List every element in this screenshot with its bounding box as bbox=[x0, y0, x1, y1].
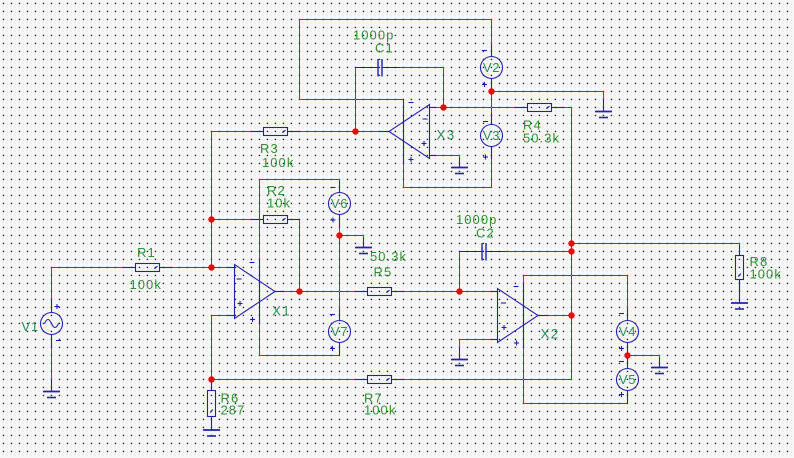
svg-text:V5: V5 bbox=[619, 372, 636, 387]
voltage source V1 (sine) bbox=[41, 300, 63, 348]
voltage source V7 bbox=[329, 309, 351, 355]
wire X2 minus node up to C2 left bbox=[459, 252, 461, 292]
resistor R8 (vertical) bbox=[736, 245, 744, 292]
wire V7 bottom loop to X1 power bottom bbox=[260, 324, 340, 356]
resistor R4 bbox=[516, 104, 564, 112]
voltage source V2 bbox=[481, 45, 503, 91]
ground at X3 plus input bbox=[451, 158, 468, 174]
wire C1 right lead to X3 minus node bbox=[399, 67, 444, 69]
node top rail junction bbox=[568, 240, 574, 246]
wire top right rail to R8 top bbox=[572, 244, 740, 256]
resistor R5 bbox=[356, 288, 404, 296]
ground at X2 plus input bbox=[451, 348, 468, 366]
wire X2 plus down to ground bbox=[459, 340, 461, 349]
ground below V1 bbox=[43, 380, 60, 398]
node X3 output junction bbox=[352, 128, 358, 134]
wire V2/V3 midpoint tap to ground bbox=[492, 92, 604, 101]
node C2 right junction bbox=[568, 248, 574, 254]
svg-text:100k: 100k bbox=[130, 277, 162, 292]
svg-text:V7: V7 bbox=[331, 324, 348, 339]
svg-text:V2: V2 bbox=[483, 60, 500, 75]
svg-text:100k: 100k bbox=[364, 403, 396, 418]
svg-text:10k: 10k bbox=[267, 196, 291, 211]
wire X2 power bottom loop to V5 bottom bbox=[524, 348, 628, 404]
wire V6 junction tap to ground bbox=[340, 236, 364, 239]
svg-text:C2: C2 bbox=[476, 226, 495, 241]
svg-text:50.3k: 50.3k bbox=[370, 249, 407, 264]
svg-text:X3: X3 bbox=[437, 128, 456, 143]
svg-text:V4: V4 bbox=[619, 324, 636, 339]
wire V1 top to R1 left bbox=[52, 268, 124, 300]
wire V6 supply rail: X1 power top to V6 top bbox=[260, 180, 340, 260]
voltage source V3 bbox=[481, 113, 503, 160]
wire R3 right pin to X3 output node bbox=[300, 131, 383, 133]
op-amp X3 (mirrored, output to left) bbox=[380, 100, 436, 164]
wire X3 plus input to ground bbox=[436, 156, 460, 159]
svg-text:X2: X2 bbox=[541, 327, 560, 342]
node X3 minus input junction bbox=[440, 104, 446, 110]
svg-text:R1: R1 bbox=[137, 245, 156, 260]
node X1 output junction bbox=[296, 288, 302, 294]
wire X2 plus input row bbox=[460, 339, 494, 341]
node V6/V7 junction bbox=[336, 232, 342, 238]
svg-text:287: 287 bbox=[221, 403, 246, 418]
wire C1 left column to X3 output node bbox=[355, 68, 357, 132]
wire R6/R7 node to R7 left bbox=[212, 379, 356, 381]
node V4/V5 junction bbox=[624, 352, 630, 358]
wire X3 power top loop to V2 top bbox=[300, 20, 492, 100]
wire R3 row corner to R3 left pin bbox=[212, 131, 252, 133]
svg-text:X1: X1 bbox=[272, 304, 291, 319]
svg-text:V3: V3 bbox=[483, 128, 500, 143]
wire X3 minus input row to R4 left bbox=[436, 107, 516, 109]
resistor R6 (vertical) bbox=[208, 380, 216, 431]
op-amp X2 bbox=[491, 284, 547, 348]
wire V2 bottom to V3 top bbox=[491, 79, 493, 125]
wire V6 junction down to V7 top bbox=[339, 236, 341, 321]
ground at V2/V3 midpoint bbox=[595, 100, 612, 118]
wire R7 right to X2 output column bbox=[404, 379, 572, 381]
resistor R7 bbox=[356, 376, 404, 384]
wire R5 right to X2 minus node bbox=[404, 291, 494, 293]
resistor R1 bbox=[124, 264, 172, 272]
node X2 output junction bbox=[568, 312, 574, 318]
wire R4 right to column corner bbox=[564, 107, 572, 109]
wire C2 right lead to X2 output column bbox=[505, 251, 572, 253]
ground below R8 bbox=[731, 280, 748, 310]
capacitor C1 bbox=[356, 59, 401, 77]
wire X2 power top to V4 top bbox=[524, 276, 628, 321]
svg-text:R3: R3 bbox=[260, 141, 279, 156]
svg-text:V1: V1 bbox=[22, 319, 39, 334]
wire R2 right down to X1 output node bbox=[299, 220, 301, 292]
node X2 minus input junction bbox=[456, 288, 462, 294]
wire R1 right to X1 minus input (node A) bbox=[172, 267, 231, 269]
wire V6 bottom to junction bbox=[339, 215, 341, 236]
voltage source V4 bbox=[617, 309, 639, 355]
node X1 minus input junction bbox=[208, 264, 214, 270]
wire X1 plus input stub bbox=[212, 315, 231, 317]
capacitor C2 bbox=[460, 243, 507, 261]
wire X2 output column vertical (R4 to R7 row) bbox=[571, 108, 573, 380]
node V2/V3 junction bbox=[488, 88, 494, 94]
svg-text:100k: 100k bbox=[262, 155, 294, 170]
voltage source V6 bbox=[329, 181, 351, 227]
resistor R2 bbox=[252, 216, 300, 224]
wire V3 bottom loop to X3 power bottom bbox=[404, 147, 492, 188]
wire V4/V5 midpoint tap to ground bbox=[628, 356, 660, 359]
wire V1 bottom to ground bbox=[51, 348, 53, 381]
wire V4 bottom to V5 top bbox=[627, 343, 629, 369]
ground at V4/V5 midpoint bbox=[651, 358, 668, 374]
node R2 left junction bbox=[208, 216, 214, 222]
wire R2 left lead row bbox=[212, 219, 252, 221]
wire X2 output stub to column bbox=[546, 315, 572, 317]
wire X1 output to R5 left bbox=[283, 291, 356, 293]
wire vertical R3/R2 column to X1 minus bbox=[211, 132, 213, 268]
voltage source V5 bbox=[617, 357, 639, 403]
ground below R6 bbox=[203, 430, 220, 436]
wire X1 plus column down to R6/R7 node bbox=[211, 316, 213, 380]
svg-text:100k: 100k bbox=[750, 267, 782, 282]
ground at V6 tap bbox=[355, 238, 372, 254]
svg-text:50.3k: 50.3k bbox=[523, 131, 560, 146]
wire C1 right column down bbox=[443, 68, 445, 108]
op-amp X1 bbox=[228, 260, 284, 324]
node R6/R7 junction bbox=[208, 376, 214, 382]
resistor R3 bbox=[252, 128, 300, 136]
svg-text:R5: R5 bbox=[374, 265, 393, 280]
svg-text:V6: V6 bbox=[331, 196, 348, 211]
svg-text:C1: C1 bbox=[375, 41, 394, 56]
